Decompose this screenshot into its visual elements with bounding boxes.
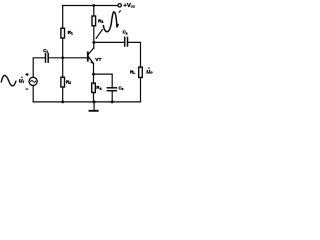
svg-text:C2: C2 [123, 30, 128, 36]
wire bottom rail [33, 101, 140, 103]
svg-text:+VCC: +VCC [123, 3, 135, 9]
label ui [19, 77, 25, 85]
svg-text:C3: C3 [119, 86, 124, 92]
wire R3 to collector [93, 26, 95, 49]
transistor VT [88, 48, 94, 64]
wire collector to C2 [94, 41, 124, 43]
wire R1 bottom to base node [62, 38, 64, 58]
label - polarity of source [26, 89, 29, 90]
wire R4 bottom to rail [93, 93, 95, 102]
ground [90, 102, 98, 111]
label RL [130, 70, 135, 76]
capacitor C1 [46, 54, 49, 63]
waveform output sine sketch [103, 12, 118, 32]
label + polarity of source [25, 73, 28, 76]
resistor R4 [92, 83, 96, 92]
label R1 [68, 30, 73, 36]
wire source down to rail [32, 86, 34, 102]
capacitor C2 [125, 37, 128, 46]
wire R2 bottom to ground rail [62, 87, 64, 102]
label C2 [123, 30, 128, 36]
resistor R1 [61, 28, 65, 38]
resistor RL [139, 67, 143, 77]
svg-text:C1: C1 [43, 48, 48, 54]
waveform tick mark [119, 11, 120, 12]
resistor R3 [92, 16, 96, 26]
node base-bias junction [61, 56, 64, 59]
wire C3 bottom to rail [111, 91, 113, 102]
wire top rail [63, 5, 118, 7]
node R2-rail junction [61, 101, 64, 104]
label C1 [43, 48, 48, 54]
node collector junction [92, 41, 95, 44]
label +Vcc [123, 3, 135, 9]
wire source up to C1 [33, 58, 45, 78]
wire C1 to base [49, 57, 87, 59]
node ground junction [93, 100, 96, 103]
wire C2 to RL corner [128, 42, 140, 67]
capacitor C3 [107, 88, 116, 91]
wire emitter junction to R4 [93, 74, 95, 83]
label C3 [119, 86, 124, 92]
wire base node down to R2 [62, 58, 64, 77]
input sine symbol [1, 75, 16, 86]
label R4 [96, 85, 101, 91]
waveform leader line [96, 30, 102, 39]
node emitter junction [92, 73, 95, 76]
svg-text:R3: R3 [98, 18, 103, 24]
wire R1 column upper [62, 6, 64, 29]
node R3 top junction [92, 4, 95, 7]
wire emitter down [93, 64, 95, 75]
svg-text:R2: R2 [66, 80, 71, 86]
label R2 [66, 80, 71, 86]
node C3-rail junction [111, 101, 114, 104]
label R3 [98, 18, 103, 24]
svg-text:VT: VT [95, 57, 101, 63]
label uo [146, 67, 153, 75]
wire RL bottom to rail [140, 78, 142, 102]
svg-text:R1: R1 [68, 30, 73, 36]
source us AC circle [29, 77, 37, 85]
wire rail down to R3 [93, 6, 95, 17]
resistor R2 [61, 77, 65, 87]
label VT [95, 57, 101, 63]
wire emitter junction to C3 [94, 74, 113, 87]
svg-text:R4: R4 [96, 85, 101, 91]
terminal +Vcc open circle [118, 4, 121, 7]
svg-text:RL: RL [130, 70, 135, 76]
